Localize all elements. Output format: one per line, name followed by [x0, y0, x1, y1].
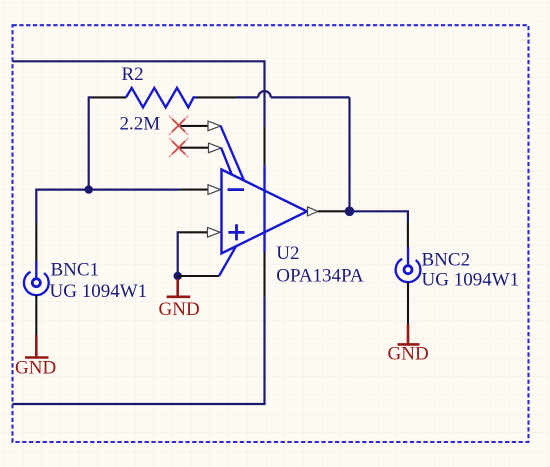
junction node (output)	[345, 207, 355, 217]
BNC2 pin stub (blue)	[407, 247, 409, 266]
BNC1 inner circle	[32, 279, 40, 287]
BNC2 top pin (black lead)	[407, 222, 409, 247]
GND symbol at BNC1	[25, 336, 49, 358]
wire: output node to BNC2	[350, 211, 408, 222]
svg-text:R2: R2	[122, 64, 144, 85]
op-amp U2 internal vertical graphic line	[263, 165, 265, 252]
wire: top horizontal net	[13, 60, 265, 62]
op-amp U2 non-inverting input pin arrow	[208, 228, 221, 238]
op-amp U2 inverting input pin arrow	[208, 185, 221, 195]
op-amp U2 minus sign	[228, 188, 245, 191]
op-amp U2 plus sign	[228, 224, 244, 240]
BNC1 top pin (black lead)	[35, 223, 37, 262]
GND symbol at BNC2	[398, 325, 420, 345]
op-amp U2 top power pin 2 line	[180, 147, 209, 149]
svg-text:BNC1: BNC1	[51, 259, 100, 280]
op-amp U2 top power pin 1 diagonal graphic	[221, 126, 244, 181]
op-amp U2 diagonal graphic line to bottom edge	[219, 246, 236, 276]
svg-text:GND: GND	[15, 358, 56, 379]
svg-text:GND: GND	[388, 344, 429, 365]
wire: bottom horizontal net	[13, 403, 266, 405]
op-amp U2 pin (V+, vertical black pin)	[263, 127, 265, 166]
svg-text:GND: GND	[159, 299, 200, 320]
wire: feedback horizontal right of hop	[271, 96, 350, 98]
op-amp U2 output pin line	[318, 210, 345, 212]
wire: stub at R2 left	[88, 96, 92, 98]
svg-text:BNC2: BNC2	[422, 250, 471, 271]
op-amp U2 inverting input pin line	[180, 189, 208, 191]
wire: vertical down from + input to ground junction	[177, 231, 179, 276]
BNC1 outer circle	[24, 272, 49, 295]
resistor R2 body (zigzag)	[126, 88, 196, 108]
wire: output pin to output node	[345, 210, 350, 212]
wire: feedback vertical down to output node	[348, 97, 350, 211]
junction node (ground net)	[174, 272, 182, 280]
no-ERC cross X2	[169, 138, 188, 157]
wire hop over vertical net	[258, 91, 271, 97]
wire: horizontal from ground junction to V- diagonal pin	[178, 275, 219, 277]
op-amp U2 top power pin 1 line	[179, 125, 208, 127]
BNC1 bottom lead (black)	[35, 295, 37, 336]
resistor R2 right pin (black lead)	[196, 96, 236, 98]
GND symbol at opamp + input	[167, 279, 191, 297]
wire: feedback vertical from R2 left down to inverting input	[88, 97, 90, 189]
svg-text:U2: U2	[276, 243, 299, 264]
BNC1 pin stub (blue)	[35, 261, 37, 279]
svg-text:OPA134PA: OPA134PA	[276, 266, 364, 287]
op-amp U2 output pin arrow	[308, 207, 319, 216]
wire: right vertical segment (top wire down to opamp V+ pin)	[263, 60, 265, 127]
op-amp U2 top power pin 2 arrow	[209, 143, 222, 153]
no-ERC cross X1	[169, 116, 188, 135]
op-amp U2 top power pin 2 diagonal graphic	[221, 148, 232, 175]
wire: non-inverting input to ground net	[178, 231, 208, 233]
svg-text:2.2M: 2.2M	[120, 114, 161, 135]
BNC2 outer circle	[396, 259, 421, 282]
op-amp U2 pin (V-, vertical black pin)	[263, 253, 265, 297]
svg-text:UG 1094W1: UG 1094W1	[50, 281, 148, 302]
wire: vertical segment from V- pin down to bottom wire	[263, 296, 265, 404]
wire: feedback horizontal left of hop	[236, 96, 258, 98]
op-amp U2 triangle body	[222, 170, 308, 254]
resistor R2 left pin (black lead)	[92, 96, 126, 98]
junction node (inverting input / feedback)	[85, 185, 93, 193]
BNC2 bottom lead (black)	[407, 282, 409, 325]
svg-text:UG 1094W1: UG 1094W1	[422, 269, 520, 290]
wire: input net BNC1 to inverting input	[36, 190, 180, 223]
BNC2 inner circle	[404, 266, 412, 274]
op-amp U2 top power pin 1 arrow	[208, 121, 221, 131]
